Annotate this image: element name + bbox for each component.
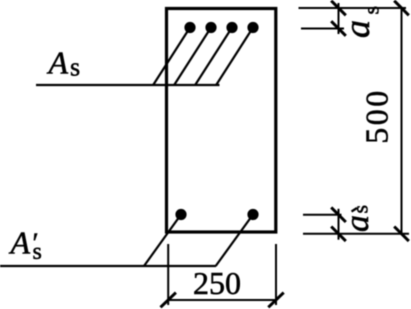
a's tick top	[331, 207, 346, 222]
250 extension line left	[167, 244, 169, 305]
svg-text:A: A	[9, 225, 31, 261]
250 extension line right	[275, 244, 277, 305]
500 tick top	[394, 1, 409, 16]
bottom extension line (beam bottom)	[303, 233, 409, 235]
rebar dot T3	[226, 22, 237, 33]
leader wire from dot T1	[153, 28, 190, 85]
rebar dot B2	[247, 209, 258, 220]
A's label baseline wire	[0, 265, 216, 267]
svg-text:s: s	[359, 6, 384, 15]
svg-text:500: 500	[359, 88, 395, 144]
as dimension line	[338, 3, 340, 34]
top extension line (beam top)	[299, 7, 407, 9]
leader wire from dot T4	[216, 28, 253, 85]
a's extension line (bottom bars level)	[303, 214, 342, 216]
leader wire from dot B1	[144, 215, 181, 267]
as tick bottom	[331, 21, 346, 36]
250 dimension line	[168, 299, 276, 301]
rebar dot T1	[184, 22, 195, 33]
as tick top	[331, 1, 346, 16]
rebar dot T4	[247, 22, 258, 33]
500 tick bottom	[394, 227, 409, 242]
svg-text:a: a	[339, 215, 376, 232]
svg-text:250: 250	[193, 265, 241, 301]
leader wire from dot B2	[216, 215, 253, 267]
leader wire from dot T3	[195, 28, 232, 85]
a's tick bottom	[331, 227, 346, 242]
svg-text:s: s	[70, 53, 80, 82]
500 dimension line	[401, 8, 403, 234]
svg-text:a: a	[337, 20, 377, 38]
leader wire from dot T2	[174, 28, 211, 85]
As label baseline wire	[36, 84, 220, 86]
label a's : prime mark	[352, 208, 358, 212]
a's dimension line	[338, 209, 340, 240]
beam cross-section outline	[167, 9, 276, 233]
rebar dot T2	[205, 22, 216, 33]
svg-text:A: A	[47, 45, 69, 81]
as extension line (top bars level)	[301, 28, 344, 30]
rebar dot B1	[175, 209, 186, 220]
svg-text:s: s	[348, 205, 373, 214]
250 tick left	[161, 293, 176, 308]
svg-text:s: s	[33, 239, 42, 265]
250 tick right	[268, 293, 283, 308]
